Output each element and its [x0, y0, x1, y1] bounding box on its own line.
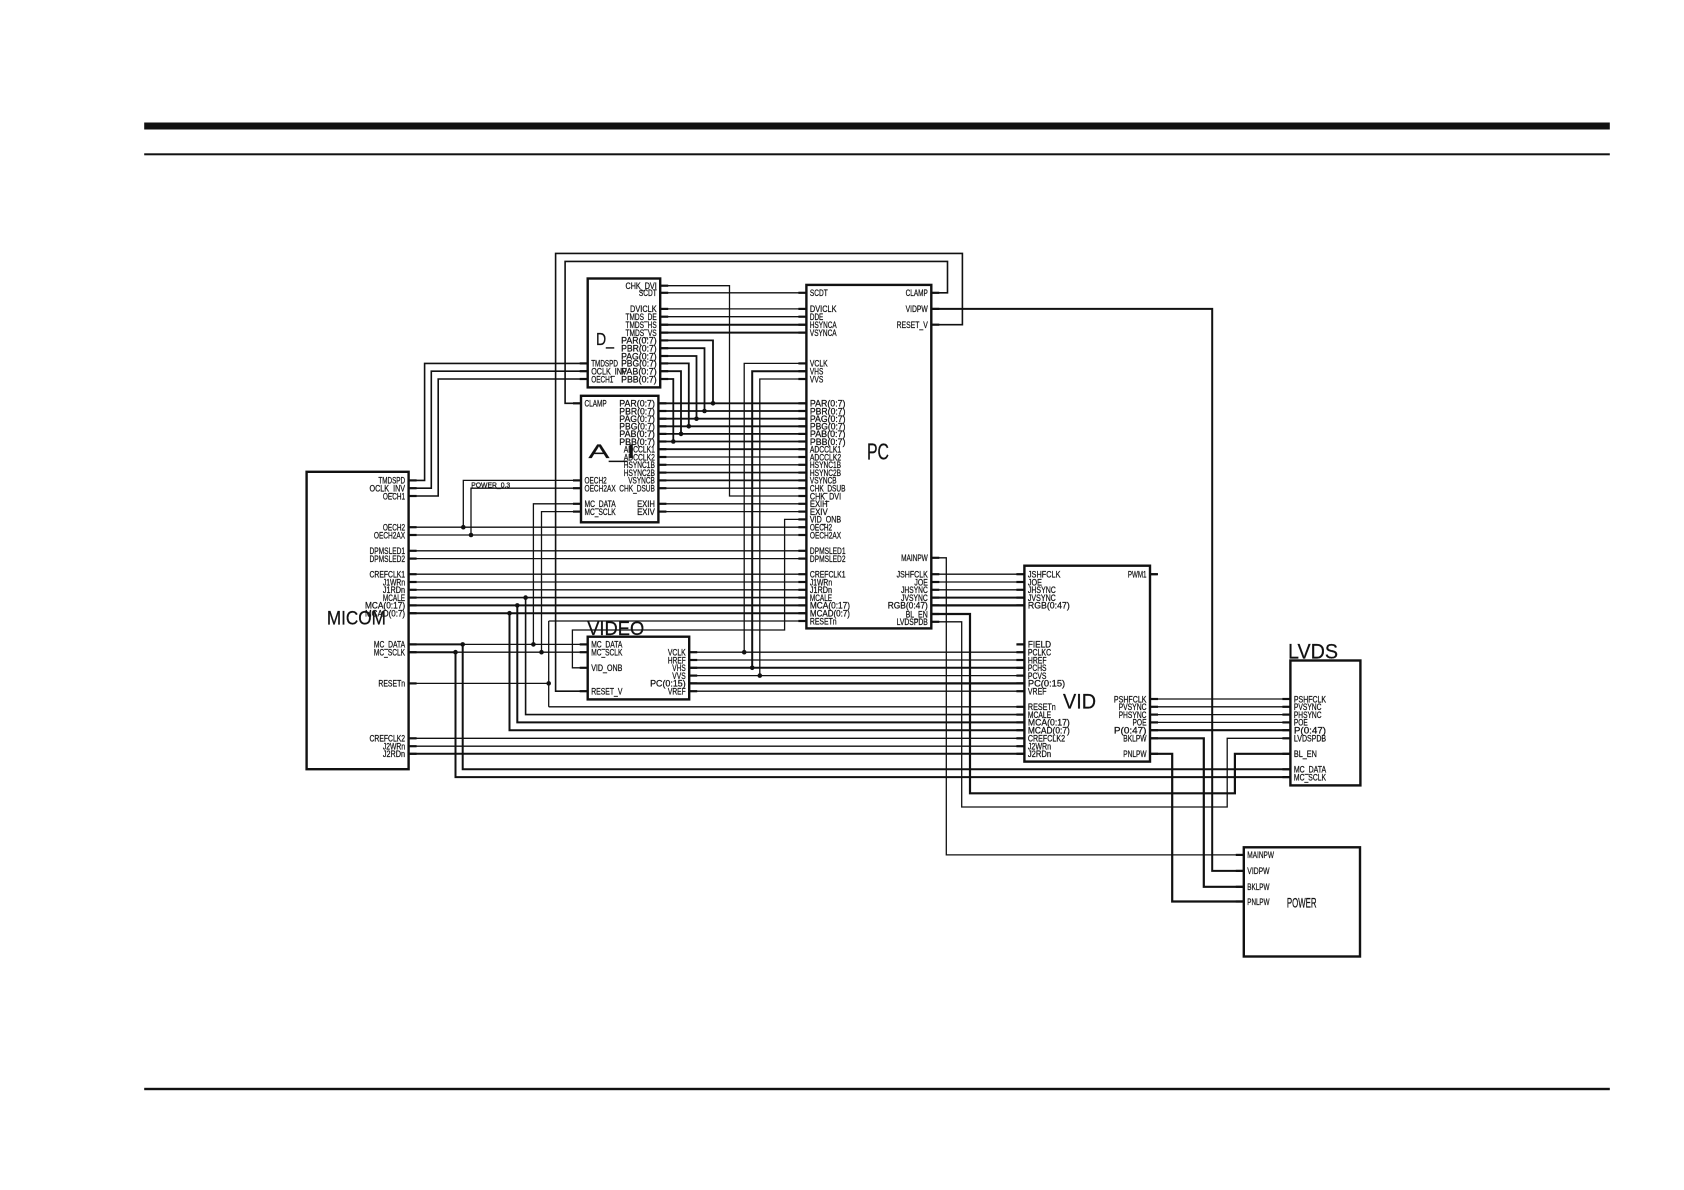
- bus MCA(0:17) (MICOM to PC, branch to VID) with junction: [409, 603, 1025, 722]
- stub FIELD (VID input, open): [1017, 643, 1024, 645]
- wire HREF (VIDEO to VID): [689, 659, 1024, 661]
- svg-text:CLAMP: CLAMP: [585, 399, 607, 409]
- svg-text:MAINPW: MAINPW: [1247, 850, 1274, 860]
- wire VCLK (VIDEO to VID, branch to PC) with junction: [689, 363, 1024, 654]
- wire PNLPW (VID to POWER): [1150, 754, 1244, 902]
- svg-text:RESET_V: RESET_V: [591, 687, 623, 697]
- wire MAINPW (PC to POWER): [931, 558, 1244, 855]
- wire BKLPW (VID to POWER): [1150, 738, 1244, 887]
- svg-text:RESETn: RESETn: [378, 679, 405, 689]
- wire TMDSPD (MICOM to D_): [409, 363, 588, 480]
- wire DPMSLED1: [409, 550, 807, 552]
- wire VHS (VIDEO to VID, branch to PC) with junction: [689, 371, 1024, 670]
- svg-text:A_I: A_I: [589, 442, 636, 463]
- bus PAB(0:7) (D_ drop + A_I to PC) with junction: [658, 371, 806, 436]
- svg-text:D_: D_: [596, 329, 614, 350]
- svg-text:BKLPW: BKLPW: [1247, 882, 1269, 892]
- wire BL_EN (PC to LVDS): [931, 614, 1290, 793]
- svg-text:BL_EN: BL_EN: [1294, 749, 1317, 759]
- bus P(0:47) (VID to LVDS): [1150, 729, 1290, 731]
- svg-text:POWER: POWER: [1287, 896, 1317, 911]
- wire MC_DATA (MICOM / A_I / VIDEO / LVDS) with junctions: [409, 504, 1291, 770]
- svg-text:OECH2AX: OECH2AX: [810, 530, 841, 540]
- wire CREFCLK2 (MICOM to VID): [409, 737, 1025, 739]
- wire TMDS_VS / VSYNCA: [660, 332, 806, 334]
- svg-text:OECH1: OECH1: [591, 374, 613, 384]
- wire LVDSPDB (PC to LVDS): [931, 622, 1290, 807]
- wire RESET_V (PC to VIDEO loop): [556, 253, 963, 691]
- wire J1RDn: [409, 589, 807, 591]
- block U3 PC (scaler): [798, 285, 939, 629]
- svg-text:VIDPW: VIDPW: [1247, 866, 1269, 876]
- svg-text:DPMSLED2: DPMSLED2: [370, 554, 406, 564]
- svg-text:OECH2AX: OECH2AX: [585, 484, 616, 494]
- wire ADCCLK1 (A_I to PC): [658, 448, 806, 450]
- wire JSHFCLK (PC to VID): [931, 573, 1024, 575]
- wire CLAMP (PC to A_I loop): [565, 261, 947, 403]
- svg-text:VIDPW: VIDPW: [906, 304, 928, 314]
- block U4 MICOM: [307, 472, 417, 769]
- wire EXIH (A_I to PC): [658, 503, 806, 505]
- wire POE (VID to LVDS): [1150, 721, 1290, 723]
- wire J2RDn (MICOM to VID): [409, 753, 1025, 755]
- wire OECH1 (MICOM to D_): [409, 379, 588, 496]
- svg-text:VID_ONB: VID_ONB: [591, 663, 622, 673]
- svg-text:RESET_V: RESET_V: [897, 320, 929, 330]
- svg-text:CLAMP: CLAMP: [906, 288, 928, 298]
- wire ADCCLK2 (A_I to PC): [658, 456, 806, 458]
- svg-text:OECH2AX: OECH2AX: [374, 530, 405, 540]
- block U6 VID processor: [1016, 566, 1158, 762]
- svg-text:MC_SCLK: MC_SCLK: [591, 648, 623, 658]
- block U2 A_I (A/D converter): [573, 396, 666, 523]
- block U1 D_ (DVI receiver): [580, 279, 669, 388]
- svg-text:J2RDn: J2RDn: [1028, 749, 1051, 759]
- svg-text:CHK_DSUB: CHK_DSUB: [619, 484, 655, 494]
- wire OCLK_INV (MICOM to D_): [409, 371, 588, 488]
- wire TMDS_DE / DDE: [660, 316, 806, 318]
- wire VID_ONB (PC to VIDEO): [572, 519, 806, 667]
- wire VVS (VIDEO to VID, branch to PC) with junction: [689, 379, 1024, 678]
- wire VIDPW (PC to POWER): [931, 309, 1244, 871]
- wire CREFCLK1: [409, 573, 807, 575]
- wire PVSYNC (VID to LVDS): [1150, 706, 1290, 708]
- block U7 LVDS transmitter: [1282, 640, 1360, 785]
- bus PBG(0:7) (D_ drop + A_I to PC) with junction: [658, 363, 806, 428]
- wire J1WRn: [409, 581, 807, 583]
- block U8 POWER supply: [1236, 847, 1360, 956]
- bus PAG(0:7) (D_ drop + A_I to PC) with junction: [658, 356, 806, 421]
- svg-text:MICOM: MICOM: [327, 609, 386, 630]
- bus PC(0:15) (VIDEO to VID): [689, 682, 1024, 684]
- page header thick rule: [144, 123, 1610, 130]
- svg-text:LVDSPDB: LVDSPDB: [1294, 734, 1326, 744]
- svg-text:MC_SCLK: MC_SCLK: [585, 507, 617, 517]
- svg-text:LVDS: LVDS: [1288, 640, 1338, 663]
- wire EXIV (A_I to PC): [658, 511, 806, 513]
- svg-text:PNLPW: PNLPW: [1247, 897, 1269, 907]
- wire CHK_DVI: [660, 286, 806, 496]
- wire JOE (PC to VID): [931, 581, 1024, 583]
- wire VREF (VIDEO to VID): [689, 690, 1024, 692]
- svg-text:RGB(0:47): RGB(0:47): [1028, 601, 1070, 611]
- bus PBB(0:7) (D_ drop + A_I to PC) with junction: [658, 379, 806, 444]
- svg-text:PBB(0:7): PBB(0:7): [621, 374, 657, 384]
- page footer rule: [144, 1088, 1610, 1090]
- stub PWM1 (VID output, open): [1150, 573, 1157, 575]
- svg-text:PNLPW: PNLPW: [1123, 749, 1146, 759]
- wire PHSYNC (VID to LVDS): [1150, 714, 1290, 716]
- wire CHK_DSUB (A_I to PC): [658, 487, 806, 489]
- wire PSHFCLK (VID to LVDS): [1150, 698, 1290, 700]
- svg-text:J2RDn: J2RDn: [383, 749, 405, 759]
- wire DPMSLED2: [409, 558, 807, 560]
- svg-text:MC_SCLK: MC_SCLK: [1294, 772, 1327, 782]
- wire JHSYNC (PC to VID): [931, 589, 1024, 591]
- svg-text:EXIV: EXIV: [637, 507, 656, 517]
- svg-text:LVDSPDB: LVDSPDB: [897, 617, 928, 627]
- bus RGB(0:47) (PC to VID): [931, 604, 1024, 606]
- svg-text:VVS: VVS: [810, 374, 823, 384]
- wire RESETn (MICOM / PC / VID tee) with junction: [409, 621, 1025, 707]
- svg-text:PC: PC: [867, 439, 889, 465]
- page header thin rule: [144, 153, 1610, 155]
- svg-text:VREF: VREF: [668, 687, 686, 697]
- svg-text:VSYNCA: VSYNCA: [810, 328, 837, 338]
- wire TMDS_HS / HSYNCA: [660, 324, 806, 326]
- wire OECH2AX (MICOM to PC, branch to A_I) with junction: [409, 488, 807, 537]
- block U5 VIDEO decoder: [580, 619, 698, 699]
- wire J2WRn (MICOM to VID): [409, 745, 1025, 747]
- wire VSYNCB (A_I to PC): [658, 479, 806, 481]
- wire SCDT: [660, 292, 806, 294]
- svg-text:BKLPW: BKLPW: [1123, 734, 1146, 744]
- svg-text:SCDT: SCDT: [639, 288, 657, 298]
- wire MCALE (MICOM to PC, branch to VID) with junction: [409, 595, 1025, 714]
- bus PAR(0:7) (D_ drop + A_I to PC) with junction: [658, 340, 806, 405]
- wire OECH2 (MICOM to PC, branch to A_I) with junction: [409, 480, 807, 529]
- bus PBR(0:7) (D_ drop + A_I to PC) with junction: [658, 348, 806, 413]
- svg-text:MAINPW: MAINPW: [901, 553, 928, 563]
- svg-text:PWM1: PWM1: [1128, 570, 1147, 580]
- wire MC_SCLK (MICOM / A_I / VIDEO / LVDS) with junctions: [409, 512, 1291, 777]
- wire DVICLK: [660, 308, 806, 310]
- svg-text:VID: VID: [1063, 690, 1096, 714]
- bus MCAD(0:7) (MICOM to PC, branch to VID) with junction: [409, 611, 1025, 730]
- svg-text:MC_SCLK: MC_SCLK: [374, 648, 406, 658]
- svg-text:SCDT: SCDT: [810, 288, 828, 298]
- wire HSYNC1B (A_I to PC): [658, 464, 806, 466]
- svg-text:DPMSLED2: DPMSLED2: [810, 554, 846, 564]
- svg-text:VREF: VREF: [1028, 687, 1047, 697]
- wire JVSYNC (PC to VID): [931, 597, 1024, 599]
- svg-text:OECH1: OECH1: [383, 491, 405, 501]
- svg-text:RESETn: RESETn: [810, 616, 837, 626]
- wire HSYNC2B (A_I to PC): [658, 472, 806, 474]
